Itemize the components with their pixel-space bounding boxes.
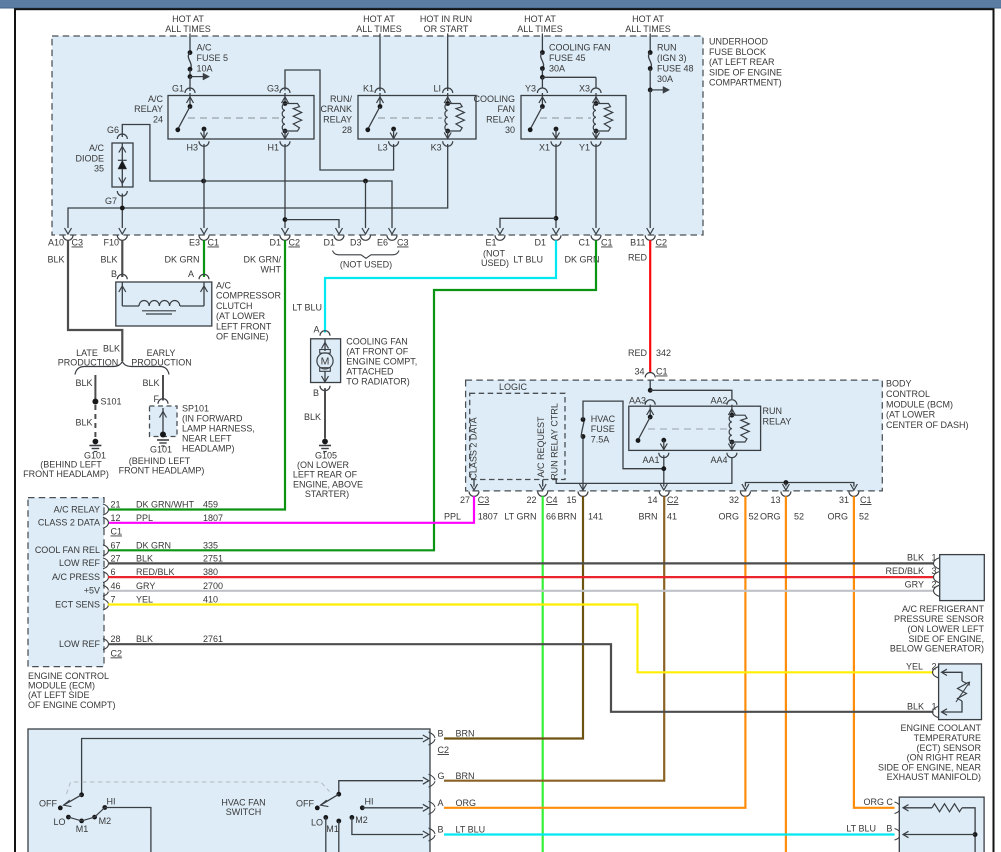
svg-text:E3: E3 bbox=[189, 238, 200, 248]
wire pin 15 arrow bbox=[580, 484, 587, 490]
A/C relay pin G1 bbox=[172, 84, 195, 109]
svg-text:LI: LI bbox=[433, 84, 441, 94]
svg-text:141: 141 bbox=[588, 512, 603, 522]
svg-text:G7: G7 bbox=[105, 196, 117, 206]
svg-text:2: 2 bbox=[932, 662, 937, 672]
wire class 2 data to pin 27 bbox=[471, 480, 478, 491]
production split brace bbox=[58, 348, 192, 375]
svg-text:D1: D1 bbox=[534, 238, 546, 248]
svg-text:14: 14 bbox=[647, 495, 657, 505]
svg-text:COOLING FAN: COOLING FAN bbox=[549, 43, 611, 53]
svg-text:335: 335 bbox=[203, 540, 218, 550]
svg-text:(AT FRONT OF: (AT FRONT OF bbox=[346, 346, 409, 356]
relay U28 RUN/CRANK RELAY box bbox=[320, 94, 476, 139]
svg-text:FRONT HEADLAMP): FRONT HEADLAMP) bbox=[119, 465, 205, 475]
svg-text:BELOW GENERATOR): BELOW GENERATOR) bbox=[890, 644, 984, 654]
svg-text:BLK: BLK bbox=[100, 255, 117, 265]
wire run relay ctrl to AA4 bbox=[556, 457, 732, 483]
svg-text:1807: 1807 bbox=[478, 512, 498, 522]
svg-text:BRN: BRN bbox=[456, 771, 475, 781]
svg-text:SP101: SP101 bbox=[182, 404, 209, 414]
wire BLK 2761 to ECT sensor 1 bbox=[108, 644, 934, 712]
fan switch 2 contacts bbox=[311, 796, 374, 834]
fan switch 2 M2 wire to pin B bbox=[352, 817, 429, 838]
svg-text:K3: K3 bbox=[431, 143, 442, 153]
svg-text:LO: LO bbox=[311, 818, 323, 828]
svg-text:COMPRESSOR: COMPRESSOR bbox=[216, 291, 282, 301]
svg-text:BLK: BLK bbox=[103, 344, 120, 354]
svg-text:6: 6 bbox=[111, 567, 116, 577]
svg-text:HOT AT: HOT AT bbox=[363, 14, 395, 24]
svg-text:LOGIC: LOGIC bbox=[499, 382, 528, 392]
svg-text:OFF: OFF bbox=[296, 799, 314, 809]
wire H3 to E3 bbox=[201, 144, 208, 234]
svg-text:A: A bbox=[188, 269, 194, 279]
label OFF switch 1 bbox=[39, 799, 57, 809]
svg-text:ALL TIMES: ALL TIMES bbox=[625, 24, 671, 34]
fan switch pin B lt blu bbox=[429, 825, 486, 841]
svg-text:FAN: FAN bbox=[497, 104, 515, 114]
svg-text:M1: M1 bbox=[76, 824, 89, 834]
wire BLK late production bbox=[75, 375, 95, 402]
svg-text:41: 41 bbox=[667, 512, 677, 522]
label body control module bbox=[886, 379, 969, 431]
connector D1 lt blu bbox=[534, 235, 561, 247]
wire ORG pin 13 down bbox=[785, 496, 787, 852]
svg-text:H1: H1 bbox=[267, 143, 279, 153]
fan switch pin B C2 bbox=[429, 729, 475, 755]
wire BLK from F10 to clutch B bbox=[121, 240, 123, 277]
svg-text:RELAY: RELAY bbox=[763, 416, 792, 426]
svg-text:LEFT REAR OF: LEFT REAR OF bbox=[293, 470, 358, 480]
svg-text:LOW REF: LOW REF bbox=[59, 639, 101, 649]
svg-text:G3: G3 bbox=[267, 84, 279, 94]
svg-text:G: G bbox=[438, 771, 445, 781]
run relay pin AA1 bbox=[642, 438, 668, 465]
fan switch pin A bbox=[429, 798, 477, 814]
svg-text:52: 52 bbox=[749, 512, 759, 522]
label RED 342 and pin 34 C1 bbox=[634, 367, 667, 378]
label cooling fan bbox=[346, 336, 417, 386]
blower motor resistor box bbox=[846, 797, 984, 852]
svg-text:PRODUCTION: PRODUCTION bbox=[58, 358, 119, 368]
ECM pin 67 COOL FAN REL bbox=[35, 540, 218, 556]
A/C compressor clutch bbox=[111, 269, 212, 326]
svg-text:13: 13 bbox=[770, 495, 780, 505]
svg-text:AA3: AA3 bbox=[629, 396, 646, 406]
wire DK GRN from E3 to clutch A bbox=[203, 240, 205, 277]
svg-text:A/C: A/C bbox=[216, 281, 232, 291]
svg-text:X3: X3 bbox=[579, 84, 590, 94]
svg-text:EARLY: EARLY bbox=[147, 348, 176, 358]
svg-text:12: 12 bbox=[111, 513, 121, 523]
svg-text:32: 32 bbox=[729, 495, 739, 505]
svg-text:A/C REQUEST: A/C REQUEST bbox=[536, 416, 546, 478]
run/crank relay switch arm bbox=[365, 107, 380, 133]
svg-text:28: 28 bbox=[342, 125, 352, 135]
svg-text:ECT SENS: ECT SENS bbox=[55, 599, 100, 609]
svg-text:C1: C1 bbox=[208, 238, 220, 248]
svg-text:C2: C2 bbox=[667, 495, 679, 505]
svg-text:28: 28 bbox=[111, 634, 121, 644]
diode D35 A/C DIODE bbox=[75, 125, 133, 187]
labels BCM wire colors bbox=[444, 512, 869, 522]
svg-text:C1: C1 bbox=[656, 367, 668, 377]
wire BRN 141 pin 15 to fan switch B bbox=[444, 496, 583, 738]
svg-text:E6: E6 bbox=[377, 238, 388, 248]
wire BRN 41 pin 14 to fan switch G bbox=[444, 496, 664, 780]
ECM connector C2 label bbox=[111, 648, 123, 658]
BCM connector 32 bbox=[729, 491, 750, 505]
run relay coil bbox=[729, 413, 749, 445]
ECM pin 12 CLASS 2 DATA bbox=[38, 513, 223, 529]
svg-text:BLK: BLK bbox=[907, 702, 924, 712]
svg-text:Y1: Y1 bbox=[579, 143, 590, 153]
svg-text:RED/BLK: RED/BLK bbox=[885, 566, 924, 576]
svg-text:BLK: BLK bbox=[304, 412, 321, 422]
svg-text:C3: C3 bbox=[397, 238, 409, 248]
svg-text:TEMPERATURE: TEMPERATURE bbox=[914, 733, 981, 743]
svg-text:FUSE 45: FUSE 45 bbox=[549, 53, 586, 63]
svg-text:LT BLU: LT BLU bbox=[456, 825, 486, 835]
svg-text:LT BLU: LT BLU bbox=[513, 255, 543, 265]
svg-text:459: 459 bbox=[203, 500, 218, 510]
relay U24 A/C RELAY box bbox=[134, 94, 314, 139]
label SP101 bbox=[182, 404, 255, 454]
svg-text:LATE: LATE bbox=[76, 348, 98, 358]
svg-text:2751: 2751 bbox=[203, 553, 223, 563]
BCM connector 31 C1 bbox=[839, 491, 872, 505]
wire B11 feed from fuse 48 bbox=[647, 90, 654, 234]
wire LT GRN pin 22 down bbox=[542, 496, 544, 852]
svg-text:(IGN 3): (IGN 3) bbox=[657, 53, 687, 63]
svg-text:ORG: ORG bbox=[760, 512, 781, 522]
svg-text:DK GRN/WHT: DK GRN/WHT bbox=[136, 500, 194, 510]
wire BLK early production bbox=[142, 375, 163, 401]
svg-text:C3: C3 bbox=[478, 495, 490, 505]
svg-text:BRN: BRN bbox=[557, 512, 576, 522]
svg-text:(ECT) SENSOR: (ECT) SENSOR bbox=[916, 743, 981, 753]
splice S101 bbox=[92, 397, 121, 407]
svg-text:EXHAUST MANIFOLD): EXHAUST MANIFOLD) bbox=[887, 772, 981, 782]
svg-text:RUN/: RUN/ bbox=[330, 94, 352, 104]
svg-text:27: 27 bbox=[460, 495, 470, 505]
svg-text:SIDE OF ENGINE,: SIDE OF ENGINE, bbox=[908, 634, 984, 644]
svg-text:BLK: BLK bbox=[907, 553, 924, 563]
wire K1 hot feed bbox=[379, 34, 381, 92]
fan switch 1 contacts bbox=[53, 796, 115, 834]
ECM pin 46 +5V bbox=[84, 581, 223, 597]
svg-text:C3: C3 bbox=[72, 238, 84, 248]
A/C relay coil bbox=[282, 101, 302, 133]
label HOT AT ALL TIMES (A/C fuse) bbox=[165, 14, 211, 34]
svg-text:HI: HI bbox=[365, 796, 374, 806]
svg-text:FRONT HEADLAMP): FRONT HEADLAMP) bbox=[23, 469, 109, 479]
svg-text:C4: C4 bbox=[546, 495, 558, 505]
svg-text:RELAY: RELAY bbox=[323, 115, 352, 125]
svg-text:SIDE OF ENGINE, NEAR: SIDE OF ENGINE, NEAR bbox=[878, 762, 982, 772]
svg-text:FUSE 5: FUSE 5 bbox=[197, 53, 229, 63]
svg-text:(NOT USED): (NOT USED) bbox=[340, 260, 392, 270]
svg-text:OF ENGINE): OF ENGINE) bbox=[216, 332, 269, 342]
logic box bbox=[470, 382, 565, 480]
run/crank relay pin K1 bbox=[363, 84, 385, 109]
svg-text:+5V: +5V bbox=[84, 586, 100, 596]
svg-text:K1: K1 bbox=[363, 84, 374, 94]
svg-text:OFF: OFF bbox=[39, 799, 57, 809]
fuse F45 COOLING FAN FUSE 45 30A bbox=[540, 34, 611, 89]
ground G101 left bbox=[23, 439, 109, 479]
svg-text:C1: C1 bbox=[111, 527, 123, 537]
svg-text:1: 1 bbox=[932, 702, 937, 712]
svg-text:TO RADIATOR): TO RADIATOR) bbox=[346, 377, 410, 387]
svg-text:GRY: GRY bbox=[136, 581, 155, 591]
BCM connector 22 C4 bbox=[526, 491, 557, 505]
svg-text:MODULE (BCM): MODULE (BCM) bbox=[886, 399, 953, 409]
svg-text:C: C bbox=[886, 797, 893, 807]
svg-text:A: A bbox=[313, 325, 319, 335]
fuse F5 A/C FUSE 5 10A bbox=[188, 34, 228, 89]
label a/c request (rotated) bbox=[536, 416, 546, 478]
run/crank relay coil pin LI bbox=[433, 84, 452, 104]
BCM connector 27 C3 bbox=[460, 491, 489, 505]
wire Y1 to C1 bbox=[593, 144, 600, 234]
svg-text:COOLING FAN: COOLING FAN bbox=[346, 336, 408, 346]
svg-text:HOT AT: HOT AT bbox=[172, 14, 204, 24]
svg-text:YEL: YEL bbox=[906, 662, 923, 672]
wire X1 to D1 with E1 branch bbox=[497, 144, 560, 234]
svg-text:A/C: A/C bbox=[89, 143, 105, 153]
svg-text:C1: C1 bbox=[860, 495, 872, 505]
svg-text:(AT LEFT SIDE: (AT LEFT SIDE bbox=[28, 690, 90, 700]
svg-text:HVAC: HVAC bbox=[591, 414, 616, 424]
label underhood fuse block bbox=[709, 37, 782, 88]
wire RED 342 feed into AA3/AA2 bbox=[648, 380, 732, 400]
connector A10 C3 bbox=[48, 235, 83, 247]
svg-text:2761: 2761 bbox=[203, 634, 223, 644]
run relay pin AA3 bbox=[629, 396, 655, 420]
ECM pin 27 LOW REF bbox=[59, 553, 223, 569]
cooling fan relay coil bbox=[593, 101, 613, 133]
svg-text:15: 15 bbox=[566, 495, 576, 505]
connector D1 not used bbox=[323, 235, 344, 247]
run/crank relay pin K3 bbox=[431, 131, 453, 153]
wire AA1 to pin 14 and hvac fuse bbox=[660, 455, 667, 490]
svg-text:RUN: RUN bbox=[657, 43, 677, 53]
svg-text:C1: C1 bbox=[578, 238, 590, 248]
svg-text:X1: X1 bbox=[539, 143, 550, 153]
svg-text:M2: M2 bbox=[355, 815, 368, 825]
svg-text:LT GRN: LT GRN bbox=[504, 512, 536, 522]
fan switch 1 arm bbox=[58, 792, 84, 810]
engine coolant temperature sensor bbox=[906, 662, 982, 720]
label A/C compressor clutch bbox=[216, 281, 282, 342]
svg-text:46: 46 bbox=[111, 581, 121, 591]
org rail to pins 32 13 31 bbox=[742, 480, 858, 490]
svg-text:(AT LOWER: (AT LOWER bbox=[216, 311, 266, 321]
wire LI hot in run feed bbox=[447, 34, 449, 92]
svg-text:RED: RED bbox=[628, 348, 648, 358]
fan switch pin G bbox=[429, 771, 475, 787]
svg-text:ENGINE, ABOVE: ENGINE, ABOVE bbox=[293, 479, 363, 489]
svg-text:7.5A: 7.5A bbox=[591, 434, 610, 444]
svg-text:CENTER OF DASH): CENTER OF DASH) bbox=[886, 420, 969, 430]
svg-text:D1: D1 bbox=[269, 238, 281, 248]
cooling fan relay switch arm bbox=[528, 107, 543, 133]
svg-text:1807: 1807 bbox=[203, 513, 223, 523]
svg-text:A/C RELAY: A/C RELAY bbox=[54, 504, 100, 514]
svg-text:C2: C2 bbox=[438, 745, 450, 755]
wire A10/G7/K3 net bbox=[65, 144, 448, 234]
cooling fan relay pin X1 bbox=[539, 127, 561, 153]
svg-text:67: 67 bbox=[111, 540, 121, 550]
svg-text:B11: B11 bbox=[630, 238, 645, 248]
label class 2 data (rotated) bbox=[469, 417, 479, 479]
wire ORG pin 32 to fan switch A bbox=[444, 496, 745, 808]
wire GRY 2700 to pressure sensor 2 bbox=[108, 590, 934, 592]
svg-text:B: B bbox=[886, 824, 892, 834]
wire BLK 2751 low ref to pressure sensor 1 bbox=[108, 562, 934, 564]
svg-text:G105: G105 bbox=[315, 451, 337, 461]
svg-text:PPL: PPL bbox=[444, 512, 461, 522]
svg-text:A10: A10 bbox=[48, 238, 64, 248]
svg-text:A: A bbox=[438, 798, 444, 808]
svg-text:WHT: WHT bbox=[261, 265, 282, 275]
svg-text:OF ENGINE COMPT): OF ENGINE COMPT) bbox=[28, 700, 116, 710]
svg-text:G101: G101 bbox=[150, 445, 172, 455]
svg-text:LT BLU: LT BLU bbox=[846, 824, 876, 834]
body control module box bbox=[466, 380, 883, 491]
diode pin G7 bbox=[105, 191, 127, 234]
svg-text:G6: G6 bbox=[107, 125, 119, 135]
svg-text:BODY: BODY bbox=[886, 379, 912, 389]
label HOT AT ALL TIMES (run/crank relay) bbox=[356, 14, 402, 34]
svg-text:C2: C2 bbox=[111, 648, 123, 658]
svg-text:34: 34 bbox=[634, 367, 644, 377]
svg-text:RED/BLK: RED/BLK bbox=[136, 567, 175, 577]
svg-text:27: 27 bbox=[111, 553, 121, 563]
run relay pin AA4 bbox=[710, 442, 736, 465]
A/C relay pin H1 bbox=[267, 131, 290, 153]
svg-text:PRODUCTION: PRODUCTION bbox=[131, 358, 192, 368]
svg-text:USED): USED) bbox=[481, 258, 509, 268]
svg-text:M2: M2 bbox=[99, 816, 112, 826]
svg-text:ORG: ORG bbox=[863, 797, 884, 807]
fan switch 2 M1 wire down bbox=[338, 821, 340, 852]
label HOT IN RUN OR START bbox=[420, 14, 472, 34]
svg-text:52: 52 bbox=[859, 512, 869, 522]
svg-text:B: B bbox=[438, 825, 444, 835]
svg-text:NEAR LEFT: NEAR LEFT bbox=[182, 434, 232, 444]
svg-text:PPL: PPL bbox=[136, 513, 153, 523]
engine control module box bbox=[28, 498, 104, 667]
svg-text:LO: LO bbox=[53, 817, 65, 827]
fan switch feed wire to pin B bbox=[82, 735, 429, 795]
fan switch 2 arm bbox=[315, 794, 339, 810]
svg-text:RELAY: RELAY bbox=[486, 115, 515, 125]
svg-text:ORG: ORG bbox=[456, 798, 477, 808]
svg-text:30: 30 bbox=[505, 125, 515, 135]
label OFF switch 2 bbox=[296, 799, 314, 809]
svg-text:7: 7 bbox=[111, 595, 116, 605]
svg-text:ORG: ORG bbox=[827, 512, 848, 522]
wire BLK dashed to G101 bbox=[75, 405, 95, 439]
svg-text:STARTER): STARTER) bbox=[305, 489, 349, 499]
svg-text:S101: S101 bbox=[101, 397, 122, 407]
fan switch 2 HI wire to pin A bbox=[362, 804, 429, 811]
svg-text:D3: D3 bbox=[350, 238, 362, 248]
svg-text:CLASS 2 DATA: CLASS 2 DATA bbox=[469, 417, 479, 479]
svg-text:COMPARTMENT): COMPARTMENT) bbox=[709, 78, 782, 88]
svg-text:HOT AT: HOT AT bbox=[524, 14, 556, 24]
svg-text:2700: 2700 bbox=[203, 581, 223, 591]
svg-text:YEL: YEL bbox=[136, 595, 153, 605]
ground G101 right (SP101) bbox=[119, 440, 205, 475]
run relay dashed actuator line bbox=[648, 428, 727, 430]
cooling fan relay pin Y1 bbox=[579, 131, 601, 153]
svg-text:M1: M1 bbox=[326, 824, 339, 834]
label run relay ctrl (rotated) bbox=[550, 403, 560, 480]
svg-text:21: 21 bbox=[111, 500, 121, 510]
ECM pin 28 LOW REF bbox=[59, 634, 223, 650]
fan switch 2 LO wire down bbox=[325, 817, 327, 852]
svg-text:LOW REF: LOW REF bbox=[59, 558, 101, 568]
svg-text:DK GRN: DK GRN bbox=[136, 540, 171, 550]
BCM connector 13 bbox=[770, 491, 790, 505]
BCM connector 15 bbox=[566, 491, 588, 505]
svg-text:A/C PRESS: A/C PRESS bbox=[52, 572, 100, 582]
svg-text:(NOT: (NOT bbox=[483, 249, 505, 259]
svg-text:C1: C1 bbox=[601, 238, 613, 248]
svg-text:DK GRN/: DK GRN/ bbox=[243, 255, 281, 265]
HVAC fan switch box bbox=[28, 729, 430, 852]
wire RED/BLK 380 to pressure sensor 3 bbox=[108, 576, 934, 578]
svg-text:A/C: A/C bbox=[148, 94, 164, 104]
connector D3 not used bbox=[350, 235, 371, 247]
wire ORG pin 31 to resistor C bbox=[854, 496, 895, 808]
svg-text:HOT AT: HOT AT bbox=[632, 14, 664, 24]
svg-text:31: 31 bbox=[839, 495, 849, 505]
A/C relay coil pin G3 bbox=[267, 84, 290, 104]
wire BLK fan to G105 bbox=[304, 388, 325, 438]
ECM pin 21 A/C RELAY bbox=[54, 500, 218, 516]
svg-text:D1: D1 bbox=[323, 238, 335, 248]
cooling fan motor bbox=[311, 325, 341, 399]
connector E3 C1 bbox=[189, 235, 219, 247]
svg-text:(IN FORWARD: (IN FORWARD bbox=[182, 414, 243, 424]
svg-text:CRANK: CRANK bbox=[320, 104, 352, 114]
svg-text:BRN: BRN bbox=[456, 729, 475, 739]
svg-text:L3: L3 bbox=[378, 143, 388, 153]
svg-text:DK GRN: DK GRN bbox=[164, 255, 199, 265]
svg-text:B: B bbox=[438, 729, 444, 739]
svg-text:BLK: BLK bbox=[75, 418, 92, 428]
svg-text:342: 342 bbox=[656, 348, 671, 358]
fan switch 2 feed wire to pin G bbox=[336, 777, 428, 796]
svg-text:HI: HI bbox=[107, 796, 116, 806]
connector E1 not used bbox=[481, 235, 509, 268]
ground G105 bbox=[293, 439, 363, 499]
svg-text:AA4: AA4 bbox=[710, 455, 727, 465]
svg-text:COOL FAN REL: COOL FAN REL bbox=[35, 545, 100, 555]
ECM connector C1 label bbox=[111, 527, 123, 537]
svg-text:(AT LOWER: (AT LOWER bbox=[886, 410, 936, 420]
fuse F48 RUN (IGN 3) FUSE 48 30A bbox=[648, 34, 694, 94]
underhood fuse block box bbox=[52, 36, 703, 235]
wire H1 to D1 with not-used branch bbox=[282, 144, 343, 234]
svg-text:24: 24 bbox=[153, 115, 163, 125]
svg-text:RUN: RUN bbox=[763, 406, 783, 416]
